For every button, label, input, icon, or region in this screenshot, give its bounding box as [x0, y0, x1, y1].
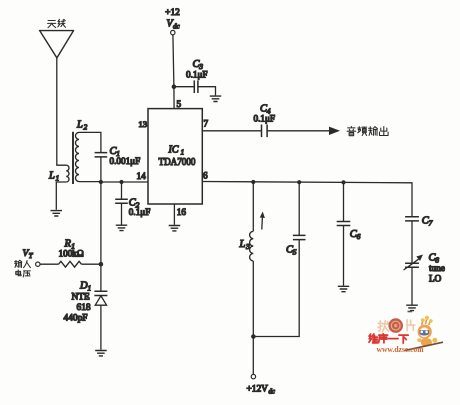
svg-text:2: 2 — [84, 123, 88, 132]
wire node A down to R1 node — [100, 182, 102, 264]
svg-text:3: 3 — [245, 242, 250, 251]
inductor L3 — [239, 231, 254, 261]
svg-text:6: 6 — [203, 170, 208, 180]
svg-text:6: 6 — [357, 232, 361, 241]
inductor L2 — [75, 120, 87, 182]
wire node A to node B to pin14 — [101, 181, 148, 183]
scan mark top — [408, 311, 413, 313]
capacitor C5 — [286, 235, 306, 256]
wire to C3 — [174, 86, 194, 88]
ground (L1) — [51, 211, 63, 216]
wire R1 to node C — [81, 263, 101, 265]
capacitor C6 — [337, 222, 361, 242]
wire L2 bottom to node A — [79, 181, 101, 183]
svg-text:16: 16 — [177, 207, 187, 217]
wire VT to R1 — [40, 263, 59, 265]
node L3/C5 bottom junction — [251, 334, 256, 339]
ground (pin 16) — [169, 226, 181, 231]
svg-text:IC: IC — [168, 145, 179, 156]
capacitor C7 — [405, 216, 433, 228]
svg-text:dc: dc — [269, 389, 275, 396]
svg-text:dc: dc — [173, 23, 181, 31]
svg-text:7: 7 — [204, 119, 209, 129]
svg-text:+12: +12 — [165, 8, 180, 18]
svg-text:1: 1 — [56, 174, 60, 183]
wire L3 to bottom node — [252, 261, 254, 374]
wire C7 to C8 — [411, 221, 413, 263]
node B (junction dot) — [119, 180, 123, 184]
ground (C8) — [406, 305, 418, 310]
wire Vdc to pin 5 — [173, 35, 174, 109]
variable capacitor C8 tune LO — [404, 253, 445, 284]
watermark logo dzsc — [369, 316, 443, 355]
wire pin6 bus — [202, 182, 412, 217]
wire node C to D1 — [100, 264, 102, 291]
svg-text:1: 1 — [181, 148, 185, 157]
svg-text:440pF: 440pF — [64, 314, 88, 324]
wire C5 to bottom junction — [253, 240, 299, 337]
svg-text:TDA7000: TDA7000 — [159, 157, 196, 168]
wire D1 to ground — [100, 305, 102, 350]
label 音频输出 — [347, 126, 388, 135]
svg-text:14: 14 — [137, 171, 147, 181]
wire pin6 node to L3 — [252, 182, 254, 231]
wire antenna to L1 — [57, 58, 66, 165]
node L3 branch — [251, 180, 255, 184]
transformer core — [72, 132, 74, 184]
capacitor C2 — [115, 182, 150, 225]
capacitor C1 — [95, 146, 141, 166]
svg-text:7: 7 — [429, 219, 433, 228]
IC IC1 TDA7000 — [148, 109, 202, 204]
wire pin6 node to C5 — [298, 182, 300, 235]
node C6 branch — [341, 180, 345, 184]
svg-text:1: 1 — [88, 284, 92, 293]
node A (junction dot) — [99, 180, 103, 184]
wire C8 to ground — [411, 267, 413, 304]
label 输入 电压 — [15, 260, 31, 277]
svg-text:5: 5 — [293, 248, 297, 257]
wire L2 top to C1 — [79, 132, 101, 152]
varactor diode D1 — [64, 281, 108, 324]
svg-text:L: L — [239, 239, 246, 250]
svg-text:L: L — [48, 171, 55, 182]
svg-text:L: L — [76, 120, 83, 131]
svg-text:100kΩ: 100kΩ — [59, 249, 84, 259]
antenna label 天线 — [48, 19, 66, 27]
svg-text:0.1μF: 0.1μF — [254, 114, 276, 124]
svg-text:NTE: NTE — [72, 293, 90, 303]
wire L1 to ground — [56, 182, 66, 210]
svg-text:T: T — [29, 253, 34, 260]
svg-text:0.001μF: 0.001μF — [110, 156, 141, 166]
ground (C6) — [338, 286, 349, 291]
ground (D1) — [95, 351, 107, 356]
capacitor C4 — [254, 104, 276, 138]
resistor R1 — [59, 239, 84, 268]
audio output arrow — [267, 127, 340, 135]
capacitor C3 — [186, 59, 208, 93]
VT input terminal — [23, 249, 41, 266]
svg-text:www.dzsc.com: www.dzsc.com — [377, 345, 424, 354]
wire C3 to ground — [198, 87, 216, 96]
wire C6 to ground — [343, 226, 345, 286]
svg-text:5: 5 — [177, 99, 182, 109]
wire pin16 to ground — [173, 204, 175, 225]
node C (junction dot) — [99, 262, 104, 267]
inductor L1 — [48, 165, 69, 183]
svg-text:0.1μF: 0.1μF — [129, 207, 151, 217]
antenna symbol — [39, 31, 74, 58]
wire pin7 to C4 — [202, 130, 261, 132]
+12 Vdc supply terminal — [165, 8, 180, 35]
svg-text:0.1μF: 0.1μF — [186, 70, 208, 80]
arrow (L3 adjustable) — [260, 212, 265, 230]
node supply/C3 junction — [172, 84, 177, 89]
wire pin6 node to C6 — [343, 182, 345, 221]
svg-text:13: 13 — [138, 119, 147, 129]
svg-text:618: 618 — [77, 303, 91, 313]
ground (C3) — [210, 96, 221, 101]
wire C1 to node A — [100, 157, 102, 182]
svg-text:tune: tune — [429, 263, 445, 273]
svg-text:+12V: +12V — [247, 385, 269, 395]
+12Vdc bottom terminal — [247, 374, 275, 395]
ground (C2) — [116, 225, 127, 230]
node C5 branch — [297, 180, 301, 184]
svg-text:LO: LO — [429, 274, 442, 284]
